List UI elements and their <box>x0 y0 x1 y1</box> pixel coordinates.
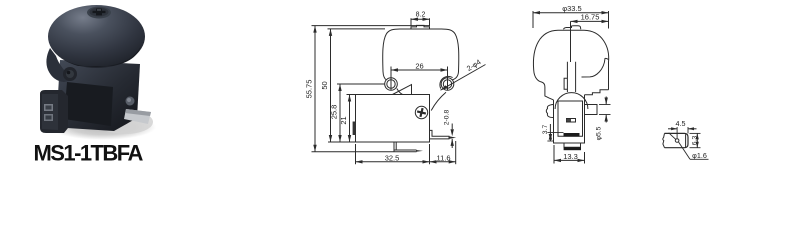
lever wedge on body top <box>393 85 412 95</box>
terminal cross-section box <box>665 133 689 147</box>
inner cavity box <box>558 101 583 136</box>
left mounting ear hole (Φ4) <box>387 80 395 88</box>
dome bottom right sweep <box>582 58 609 77</box>
plunger button on dome top <box>411 25 430 29</box>
svg-text:8.2: 8.2 <box>416 12 426 19</box>
round boss arc <box>555 93 588 109</box>
dim 50 <box>330 29 332 142</box>
plunger stem <box>567 62 575 92</box>
dim 32.5 (body width) <box>355 144 357 164</box>
dome bottom left shoulder <box>534 70 554 100</box>
dim Φ33.5 <box>532 11 534 28</box>
svg-text:55.75: 55.75 <box>305 80 314 99</box>
label 2-Φ4 (mounting holes) with leader <box>441 65 486 91</box>
left shoulder scallop profile <box>546 105 553 118</box>
dim 26 (ear spacing) <box>391 69 448 71</box>
svg-text:φ5.5: φ5.5 <box>596 126 603 140</box>
label Φ1.6 with leader underline <box>690 158 709 160</box>
right mounting ear outer <box>441 78 454 91</box>
connector hole 1 <box>44 104 53 111</box>
svg-text:φ1.6: φ1.6 <box>692 151 707 160</box>
dim 21 <box>349 95 351 143</box>
svg-text:2-0.8: 2-0.8 <box>443 110 450 126</box>
contact bar (dark) <box>564 133 580 137</box>
plus plate on dome top <box>87 7 111 19</box>
bottom foot <box>564 143 581 147</box>
svg-text:6.3: 6.3 <box>691 136 698 146</box>
dome left ear tab <box>46 48 74 82</box>
fillet right ear to body right edge <box>431 92 446 110</box>
svg-text:MS1-1TBFA: MS1-1TBFA <box>34 141 144 166</box>
dome outline <box>383 29 459 72</box>
wing outline around right ear <box>440 76 453 88</box>
terminal bump on body left <box>353 122 356 136</box>
dim 13.3 <box>553 145 555 164</box>
right terminal blade <box>430 130 450 139</box>
box right face inner line <box>685 134 687 147</box>
switch body block <box>57 60 140 131</box>
svg-text:21: 21 <box>339 116 348 124</box>
svg-text:25.8: 25.8 <box>330 105 339 120</box>
switch body rectangle <box>356 95 430 143</box>
fillet dome to left ear <box>383 72 387 81</box>
dim 2-0.8 (terminal thickness) <box>451 124 453 130</box>
centerline <box>570 21 572 62</box>
screw on right <box>126 97 135 106</box>
svg-text:50: 50 <box>320 81 329 89</box>
shadow under switch <box>50 114 156 140</box>
fillet left ear to body <box>397 89 403 95</box>
break edge left <box>663 133 665 147</box>
dome outline side view <box>533 30 608 90</box>
svg-text:26: 26 <box>415 61 423 70</box>
svg-text:4.5: 4.5 <box>676 119 686 128</box>
left mounting ear outer <box>385 78 398 91</box>
dim 55.75 (overall height) <box>314 26 316 152</box>
svg-text:13.3: 13.3 <box>563 152 578 161</box>
right terminal lug <box>585 105 598 115</box>
svg-text:32.5: 32.5 <box>385 153 400 162</box>
dim 11.6 <box>430 161 456 163</box>
ear screw boss <box>63 67 77 81</box>
body front dark face <box>64 82 113 126</box>
dim 25.8 <box>339 84 341 142</box>
leader through hole <box>669 133 676 140</box>
extension line: button top to 55.75 dim <box>312 25 430 27</box>
switch dome (bell top) <box>48 5 145 68</box>
small slot <box>567 119 576 123</box>
right mounting ear hole (Φ4) <box>443 80 451 88</box>
cover screw <box>415 106 427 118</box>
side body outline <box>554 95 585 143</box>
svg-text:φ33.5: φ33.5 <box>562 4 581 13</box>
dim 6.3 <box>690 132 701 134</box>
bottom terminal blade <box>394 142 417 152</box>
svg-text:16.75: 16.75 <box>581 12 600 21</box>
connector hole 2 <box>44 114 53 121</box>
svg-text:11.6: 11.6 <box>436 153 450 162</box>
right side step <box>585 90 609 95</box>
dome underside shade <box>52 46 141 67</box>
stem ledge <box>564 78 567 89</box>
svg-text:3.7: 3.7 <box>542 125 549 135</box>
dim 16.75 <box>571 20 609 22</box>
foot contact (dark) <box>564 147 581 150</box>
hole Φ1.6 <box>675 139 679 143</box>
metal lever tab right <box>124 109 151 124</box>
dim Φ5.5 <box>599 104 611 106</box>
top button bump <box>564 26 581 30</box>
connector block bottom-left <box>40 90 68 133</box>
fillet dome to right ear <box>452 72 459 81</box>
dim 8.2 (button width) <box>410 18 412 26</box>
plus mark <box>93 9 106 16</box>
dim 4.5 <box>676 127 678 138</box>
dim 3.7 <box>549 124 551 141</box>
